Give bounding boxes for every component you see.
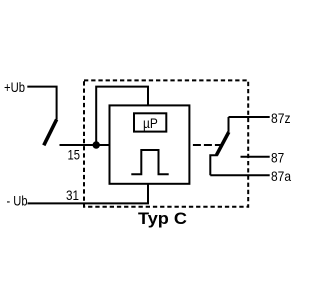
svg-text:Typ C: Typ C [138, 209, 187, 228]
relay changeover blade [217, 132, 229, 155]
microprocessor box [134, 113, 166, 131]
wire terminal 31 to module bottom [28, 184, 149, 204]
contact pivot jog to 87a [210, 155, 218, 175]
wire terminal 87a [210, 174, 269, 176]
wire terminal 87z [229, 116, 270, 118]
svg-text:µP: µP [143, 115, 158, 131]
control module box U1 [110, 105, 190, 183]
contact post 87z [228, 117, 230, 132]
wire terminal 15 [60, 144, 110, 146]
wire supply loop to module top [96, 87, 148, 145]
svg-text:+Ub: +Ub [4, 79, 25, 95]
junction node on 15 wire [93, 141, 100, 148]
relay enclosure dashed box [84, 80, 248, 206]
svg-text:87: 87 [271, 150, 284, 166]
switch S1 blade (supply switch) [44, 120, 57, 146]
wire +Ub feed [27, 87, 56, 120]
svg-text:87a: 87a [271, 168, 291, 184]
pulse waveform symbol [131, 150, 168, 174]
svg-text:15: 15 [68, 146, 81, 162]
svg-text:- Ub: - Ub [7, 193, 28, 209]
svg-text:87z: 87z [271, 110, 291, 126]
actuation dashed link [193, 144, 221, 146]
wire terminal 87 [241, 156, 270, 158]
svg-text:31: 31 [66, 187, 79, 203]
